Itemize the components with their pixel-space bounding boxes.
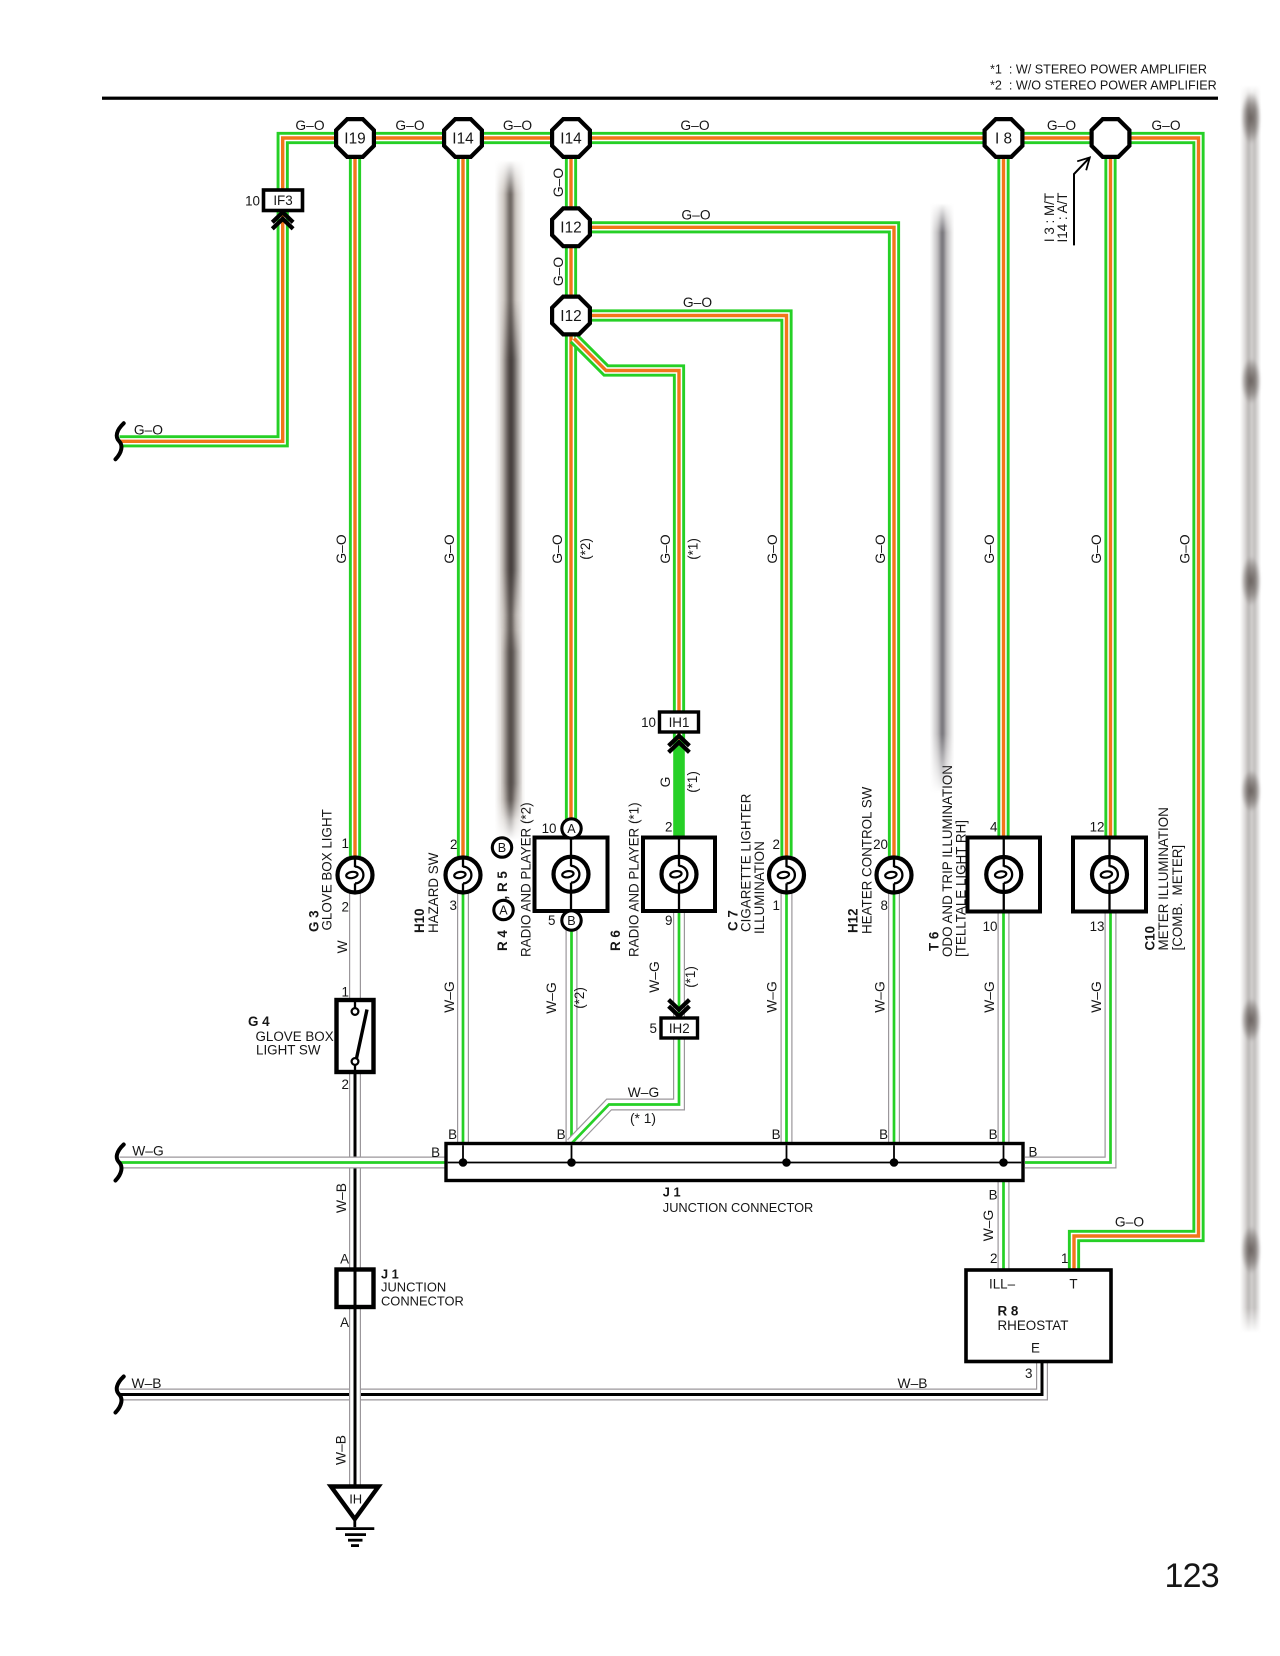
junction connector J1 (small): [337, 1270, 374, 1308]
svg-text:[TELLTALE LIGHT RH]: [TELLTALE LIGHT RH]: [954, 820, 969, 957]
scan smudge column middle: [930, 203, 954, 793]
svg-text:(*2): (*2): [578, 538, 593, 560]
wire W-G wire C10 to J1 right side: [1025, 911, 1111, 1163]
svg-text:G–O: G–O: [551, 168, 566, 197]
svg-text:, R 5: , R 5: [495, 871, 510, 900]
lamp C7 cigarette lighter illumination: [769, 858, 804, 893]
svg-text:G–O: G–O: [503, 118, 532, 133]
svg-text:I19: I19: [344, 130, 365, 147]
svg-text:G–O: G–O: [442, 534, 457, 563]
svg-text:5: 5: [548, 913, 555, 928]
scan streak right edge: [1240, 85, 1261, 1333]
connector I19: [336, 119, 374, 157]
svg-text:20: 20: [873, 837, 888, 852]
wire G-O branch I19 to G3 glove box light: [349, 156, 361, 875]
svg-text:G–O: G–O: [550, 534, 565, 563]
wire G-O branch I14/I12/I12 to R4,R5 radio: [565, 156, 577, 838]
wire G-O branch I12 to C7 cigarette lighter: [571, 316, 787, 876]
svg-text:JUNCTION CONNECTOR: JUNCTION CONNECTOR: [663, 1200, 813, 1215]
wire W-G (*2) wire R4,R5 to J1: [566, 911, 578, 1144]
svg-text:W–G: W–G: [544, 982, 559, 1013]
radio R6 illumination box: [643, 838, 715, 912]
wire W-G wire left cut to J1: [120, 1157, 447, 1169]
svg-text:RADIO AND PLAYER (*1): RADIO AND PLAYER (*1): [627, 802, 642, 957]
svg-text:B: B: [772, 1127, 781, 1142]
svg-text:H10: H10: [412, 908, 427, 933]
svg-text:W–G: W–G: [1089, 981, 1104, 1012]
svg-text:[COMB. METER]: [COMB. METER]: [1170, 845, 1185, 951]
svg-text:B: B: [989, 1127, 998, 1142]
svg-text:A: A: [340, 1252, 349, 1267]
svg-text:B: B: [879, 1127, 888, 1142]
svg-text:(*1): (*1): [686, 538, 701, 560]
svg-text:1: 1: [773, 898, 780, 913]
svg-text:10: 10: [983, 919, 998, 934]
svg-text:IF3: IF3: [273, 193, 292, 208]
svg-text:W–G: W–G: [765, 981, 780, 1012]
wire G-O branch I3/I14 to C10 meter illumination: [1104, 156, 1116, 838]
lamp H10 hazard sw illumination: [446, 858, 481, 893]
connector IF3: [245, 190, 302, 211]
chevron into IH1: [669, 736, 690, 753]
svg-text:1: 1: [1061, 1251, 1068, 1266]
svg-text:3: 3: [450, 898, 457, 913]
svg-text:W–G: W–G: [647, 961, 662, 992]
svg-text:B: B: [448, 1127, 457, 1142]
svg-text:B: B: [989, 1188, 998, 1203]
connector I14 second: [552, 119, 590, 157]
svg-text:I 8: I 8: [995, 130, 1012, 147]
lamp bulb of radio R6 illumination box: [662, 857, 697, 892]
svg-text:IH2: IH2: [669, 1021, 690, 1036]
wire W-G (*1) wire R6 to IH2: [673, 911, 685, 1018]
connector I12 lower: [552, 297, 590, 335]
svg-text:2: 2: [450, 837, 457, 852]
connector I3 M/T - I14 A/T (unlabeled): [1092, 119, 1130, 157]
svg-text:1: 1: [342, 836, 349, 851]
svg-text:RADIO AND PLAYER (*2): RADIO AND PLAYER (*2): [519, 802, 534, 957]
svg-text:G–O: G–O: [295, 118, 324, 133]
svg-text:RHEOSTAT: RHEOSTAT: [998, 1318, 1069, 1333]
svg-text:LIGHT SW: LIGHT SW: [256, 1042, 321, 1057]
ground IH: [331, 1487, 379, 1546]
svg-text:*1 : W/ STEREO POWER AMPLIFIE: *1 : W/ STEREO POWER AMPLIFIER: [990, 63, 1207, 77]
wire W wire G3 to G4 switch: [349, 892, 361, 1000]
svg-text:G–O: G–O: [134, 422, 163, 437]
svg-text:(*2): (*2): [572, 987, 587, 1009]
svg-text:ILLUMINATION: ILLUMINATION: [752, 841, 767, 934]
wire G-O (*1) branch to IH1: [574, 339, 679, 741]
svg-text:B: B: [557, 1127, 566, 1142]
connector I12 upper: [552, 208, 590, 246]
svg-text:(*1): (*1): [683, 966, 698, 988]
svg-text:JUNCTION: JUNCTION: [381, 1280, 446, 1295]
lamp H12 heater control sw illumination: [877, 858, 912, 893]
svg-text:W–B: W–B: [898, 1376, 928, 1391]
svg-text:G–O: G–O: [982, 534, 997, 563]
svg-text:G–O: G–O: [683, 295, 712, 310]
rheostat R8: [966, 1270, 1111, 1362]
connector I14 first: [444, 119, 482, 157]
wire W-G wire T6 to J1: [998, 911, 1010, 1144]
wire W-B wire G4 through J1 to IH ground: [349, 1072, 361, 1486]
wire G-O branch I12 to H12 heater control sw: [571, 227, 894, 875]
svg-text:GLOVE BOX LIGHT: GLOVE BOX LIGHT: [320, 809, 335, 930]
svg-text:I12: I12: [560, 308, 581, 325]
svg-text:G–O: G–O: [334, 534, 349, 563]
svg-text:G–O: G–O: [395, 118, 424, 133]
wire W-G wire C7 to J1: [781, 892, 793, 1144]
svg-text:B: B: [498, 841, 506, 855]
svg-text:2: 2: [342, 1077, 349, 1092]
svg-text:*2 : W/O STEREO POWER AMPLIFI: *2 : W/O STEREO POWER AMPLIFIER: [990, 79, 1217, 93]
svg-text:CONNECTOR: CONNECTOR: [381, 1293, 464, 1308]
svg-text:W–G: W–G: [442, 981, 457, 1012]
connector I8: [985, 119, 1023, 157]
svg-text:5: 5: [650, 1021, 657, 1036]
connector IH2: [650, 1018, 698, 1038]
radio R4,R5 illumination box: [535, 838, 608, 912]
lamp bulb of radio R4,R5 illumination box: [554, 857, 589, 892]
svg-text:I14: I14: [560, 130, 582, 147]
cut mark left W-G: [116, 1145, 124, 1181]
svg-text:W: W: [335, 940, 350, 953]
svg-text:2: 2: [990, 1251, 997, 1266]
svg-text:4: 4: [990, 820, 998, 835]
svg-text:J 1: J 1: [663, 1185, 681, 1200]
wire W-B ground bus bottom, up to R8 E pin: [120, 1362, 1043, 1395]
svg-text:10: 10: [245, 193, 260, 208]
svg-text:13: 13: [1090, 919, 1105, 934]
lamp bulb of C10 meter illumination box: [1092, 857, 1127, 892]
svg-text:W–B: W–B: [132, 1376, 162, 1391]
svg-text:G–O: G–O: [680, 118, 709, 133]
svg-text:W–B: W–B: [334, 1435, 349, 1465]
pin label circle B: [492, 838, 511, 857]
svg-text:2: 2: [773, 837, 780, 852]
svg-text:W–G: W–G: [981, 1210, 996, 1241]
svg-text:H12: H12: [846, 908, 861, 933]
svg-text:(*1): (*1): [685, 771, 700, 793]
wire W-G (*1) wire IH2 to J1: [572, 1038, 680, 1144]
junction connector J1 (bus): [446, 1144, 1023, 1181]
svg-text:10: 10: [542, 821, 557, 836]
svg-text:HEATER CONTROL SW: HEATER CONTROL SW: [860, 786, 875, 934]
svg-text:G–O: G–O: [873, 534, 888, 563]
svg-text:W–B: W–B: [334, 1183, 349, 1213]
svg-text:G–O: G–O: [658, 534, 673, 563]
svg-text:G–O: G–O: [765, 534, 780, 563]
wire G-O branch I8 to T6 odo illumination: [997, 156, 1009, 838]
svg-text:W–G: W–G: [132, 1143, 163, 1158]
svg-text:I14: I14: [452, 130, 474, 147]
svg-text:G–O: G–O: [681, 208, 710, 223]
svg-text:G–O: G–O: [1151, 118, 1180, 133]
chevron into IH2: [669, 1000, 690, 1017]
svg-text:G–O: G–O: [551, 257, 566, 286]
svg-text:9: 9: [665, 913, 672, 928]
svg-text:IH1: IH1: [669, 715, 690, 730]
pin label circle A: [494, 900, 513, 919]
top rule: [102, 97, 1218, 100]
svg-text:G 4: G 4: [248, 1014, 270, 1029]
svg-text:T: T: [1069, 1277, 1077, 1292]
svg-text:HAZARD SW: HAZARD SW: [426, 852, 441, 933]
svg-text:2: 2: [665, 820, 672, 835]
wire G-O branch I14 to H10 hazard sw: [457, 156, 469, 875]
svg-text:3: 3: [1025, 1366, 1032, 1381]
C10 meter illumination box: [1073, 838, 1146, 912]
svg-text:ILL–: ILL–: [989, 1277, 1016, 1292]
arrow to I3/I14 octagon: [1074, 158, 1090, 246]
pin R4,R5 pin A top: [562, 819, 581, 838]
wire W-G wire J1 to R8 ILL-: [998, 1181, 1010, 1271]
svg-text:B: B: [567, 914, 575, 928]
svg-text:R 6: R 6: [608, 930, 623, 951]
svg-text:METER ILLUMINATION: METER ILLUMINATION: [1156, 807, 1171, 950]
svg-text:G: G: [658, 777, 673, 788]
svg-text:A: A: [567, 822, 576, 836]
T6 odo and trip illumination box: [968, 838, 1041, 912]
scan smudge column left: [495, 160, 525, 840]
svg-text:G–O: G–O: [1115, 1215, 1144, 1230]
svg-text:W–G: W–G: [873, 981, 888, 1012]
svg-text:G–O: G–O: [1047, 118, 1076, 133]
cut mark left G-O: [116, 423, 124, 459]
svg-text:W–G: W–G: [982, 981, 997, 1012]
svg-text:B: B: [431, 1145, 440, 1160]
svg-text:12: 12: [1090, 820, 1105, 835]
lamp G3 glove box light: [338, 858, 373, 893]
pin R4,R5 pin B bottom: [562, 911, 581, 930]
svg-text:(* 1): (* 1): [630, 1111, 656, 1126]
svg-text:R 8: R 8: [998, 1304, 1019, 1319]
wire main G-O feed: left cut, up IF3 column, top bus, right drop to R8 T: [120, 138, 1199, 1271]
svg-text:G–O: G–O: [1178, 534, 1193, 563]
svg-text:B: B: [1029, 1145, 1038, 1160]
wire W-G wire H12 to J1: [888, 892, 900, 1144]
svg-text:W–G: W–G: [628, 1085, 659, 1100]
svg-text:8: 8: [881, 898, 888, 913]
connector IH1: [641, 712, 698, 732]
svg-text:2: 2: [342, 899, 349, 914]
cut mark left W-B: [116, 1377, 124, 1413]
chevron into IF3: [272, 212, 293, 229]
svg-text:E: E: [1031, 1340, 1040, 1355]
svg-text:G–O: G–O: [1089, 534, 1104, 563]
svg-text:A: A: [340, 1315, 349, 1330]
switch G4 glove box light sw: [337, 1000, 374, 1072]
svg-text:123: 123: [1165, 1557, 1219, 1595]
svg-text:A: A: [499, 904, 508, 918]
svg-text:R 4: R 4: [495, 930, 510, 951]
svg-text:I12: I12: [560, 220, 581, 237]
svg-text:1: 1: [342, 985, 349, 1000]
svg-text:10: 10: [641, 715, 656, 730]
svg-text:I14 : A/T: I14 : A/T: [1055, 193, 1070, 243]
lamp bulb of T6 odo and trip illumination box: [986, 857, 1021, 892]
svg-text:IH: IH: [349, 1491, 362, 1506]
wire G (*1) wire IH1 to R6 radio: [673, 740, 685, 838]
wire W-G wire H10 to J1: [457, 892, 469, 1144]
